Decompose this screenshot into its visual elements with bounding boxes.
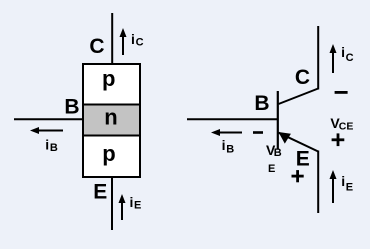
current arrow iC (left figure): [120, 28, 127, 55]
svg-text:C: C: [346, 52, 354, 64]
label iE (right figure): [341, 173, 353, 193]
svg-text:CE: CE: [339, 120, 354, 132]
svg-text:E: E: [296, 147, 310, 170]
svg-text:i: i: [45, 136, 49, 152]
wire collector top (left figure): [111, 13, 113, 64]
svg-text:i: i: [131, 31, 135, 47]
transistor Q1 pnp structure body: [83, 64, 140, 177]
plus sign of vBE (near emitter): [292, 170, 304, 182]
svg-text:E: E: [134, 200, 141, 212]
label iB (left figure): [45, 136, 58, 154]
label iC (left figure): [131, 31, 144, 49]
minus sign of vBE (near base): [253, 131, 263, 134]
wire base (right figure): [187, 118, 277, 120]
wire emitter vertical (right figure): [317, 151, 319, 214]
wire base left (left figure): [14, 118, 83, 120]
wire collector vertical (right figure): [317, 26, 319, 90]
svg-text:B: B: [254, 92, 269, 115]
label iE (left figure): [130, 194, 142, 212]
label iB (right figure): [222, 137, 235, 156]
minus sign of vCE (collector side): [335, 91, 348, 94]
label iC (right figure): [341, 44, 354, 64]
wire emitter diagonal (right figure): [279, 133, 319, 152]
svg-text:C: C: [136, 37, 144, 49]
svg-text:i: i: [341, 173, 345, 189]
label vCE: [330, 115, 353, 132]
emitter arrowhead (pnp, points toward base): [278, 132, 291, 144]
svg-text:E: E: [346, 181, 353, 193]
current arrow iB (right figure): [211, 129, 242, 136]
svg-text:p: p: [102, 66, 115, 91]
svg-text:i: i: [341, 44, 345, 60]
transistor Q2 pnp symbol: base bar: [277, 91, 279, 149]
wire emitter bottom (left figure): [111, 177, 113, 230]
n base region: [83, 105, 140, 136]
current arrow iC (right figure): [330, 44, 337, 73]
svg-text:i: i: [130, 194, 134, 210]
current arrow iB (left figure): [30, 127, 63, 134]
svg-text:E: E: [268, 163, 275, 175]
svg-text:E: E: [93, 181, 107, 204]
plus sign of vCE (emitter side): [332, 133, 345, 146]
svg-text:B: B: [226, 144, 234, 156]
wire collector diagonal (right figure): [279, 89, 319, 105]
label vBE line1: [266, 142, 282, 159]
svg-text:B: B: [64, 95, 79, 118]
svg-text:B: B: [274, 147, 282, 159]
svg-text:C: C: [295, 66, 310, 89]
current arrow iE (right figure): [330, 170, 337, 203]
svg-text:n: n: [104, 104, 117, 129]
svg-text:p: p: [102, 141, 115, 166]
svg-text:i: i: [222, 137, 226, 153]
current arrow iE (left figure): [119, 194, 126, 220]
svg-text:B: B: [50, 142, 58, 154]
svg-text:C: C: [89, 35, 104, 58]
